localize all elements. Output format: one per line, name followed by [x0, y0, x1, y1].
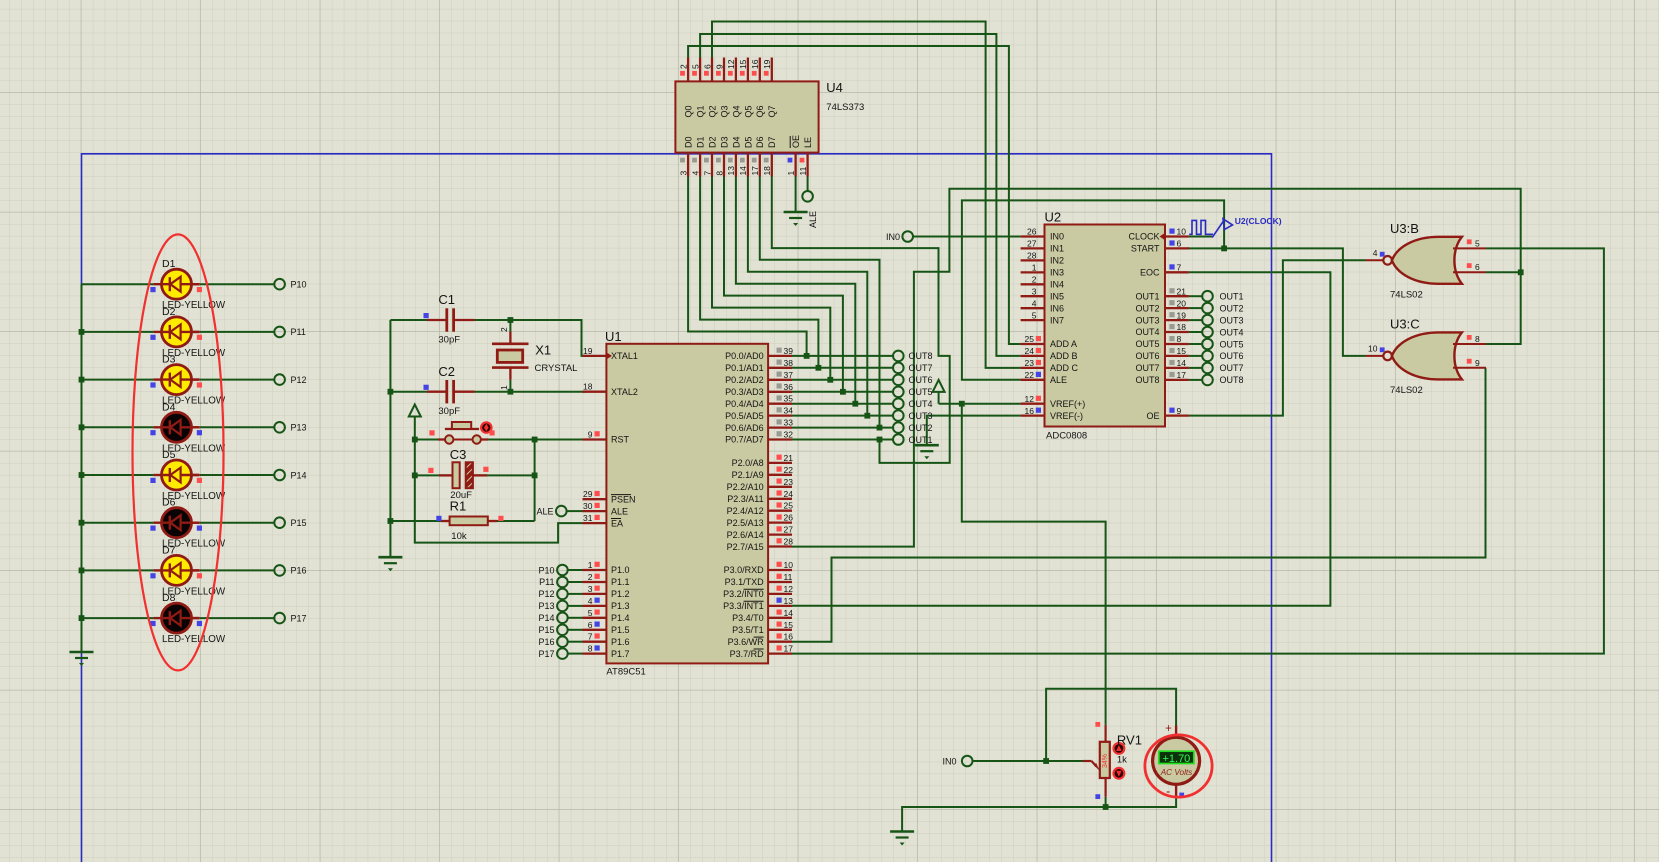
U1 pin 29 (PSEN): [583, 498, 607, 500]
svg-text:P0.6/AD6: P0.6/AD6: [725, 423, 764, 433]
U2 pin 10 (CLOCK): [1165, 235, 1189, 237]
svg-text:Q3: Q3: [719, 105, 729, 117]
svg-text:P17: P17: [291, 613, 307, 623]
svg-text:30pF: 30pF: [438, 335, 460, 346]
wire: ALE terminal to U1: [567, 510, 583, 512]
svg-text:P3.3/INT1: P3.3/INT1: [723, 601, 764, 611]
U1 pin 34 (P0.5/AD5): [768, 414, 792, 416]
svg-text:OUT6: OUT6: [909, 375, 933, 385]
wire: ADC OUT6 to terminal: [1189, 355, 1202, 357]
svg-text:D1: D1: [695, 136, 705, 148]
terminal OUT5 (P0 side): [893, 387, 933, 398]
svg-text:U3:B: U3:B: [1390, 221, 1419, 236]
wire: P3.6/WR to U3:C pin 9: [792, 368, 1486, 642]
svg-text:74LS373: 74LS373: [826, 102, 864, 113]
capacitor C1 30pF: [424, 292, 475, 346]
U2 pin 22 (ALE): [1021, 379, 1045, 381]
U1 body: [606, 344, 768, 664]
clock generator U2(CLOCK): [1189, 216, 1282, 238]
wire: P16 terminal to U1: [568, 641, 583, 643]
svg-text:ADD B: ADD B: [1050, 351, 1078, 361]
svg-text:39: 39: [784, 346, 794, 356]
U1 pin 31 (EA): [583, 522, 607, 524]
svg-text:15: 15: [784, 620, 794, 630]
wire: GND bus left of LEDs: [79, 284, 85, 652]
svg-text:24: 24: [784, 489, 794, 499]
svg-text:4: 4: [588, 596, 593, 606]
svg-text:25: 25: [784, 501, 794, 511]
svg-text:10: 10: [1177, 227, 1187, 237]
svg-text:P17: P17: [538, 649, 554, 659]
svg-text:P0.2/AD2: P0.2/AD2: [725, 375, 764, 385]
svg-text:C1: C1: [438, 292, 455, 307]
U1 pin 24 (P2.3/A11): [768, 498, 792, 500]
U4 pin 5 (Q1) top / pin 4 (D1) bottom: [699, 58, 701, 82]
U1 pin 35 (P0.4/AD4): [768, 403, 792, 405]
svg-text:IN0: IN0: [942, 756, 956, 766]
svg-text:+1.70: +1.70: [1162, 753, 1190, 765]
U4 pin 15 (Q5) top / pin 14 (D5) bottom: [747, 58, 749, 82]
svg-text:U4: U4: [826, 80, 843, 95]
svg-text:OUT2: OUT2: [1135, 303, 1159, 313]
U1 pin 8 (P1.7): [583, 652, 607, 654]
wire: U4 D1 to P0.1: [700, 177, 821, 371]
svg-text:ALE: ALE: [611, 506, 628, 516]
U1 pin 27 (P2.6/A14): [768, 533, 792, 535]
svg-text:OUT3: OUT3: [909, 411, 933, 421]
svg-text:22: 22: [784, 465, 794, 475]
svg-text:16: 16: [784, 632, 794, 642]
led D7 LED-YELLOW: [150, 544, 226, 597]
svg-text:Q1: Q1: [695, 105, 705, 117]
wire: ADC OUT5 to terminal: [1189, 343, 1202, 345]
svg-text:CRYSTAL: CRYSTAL: [535, 363, 578, 374]
terminal ALE (U1): [536, 506, 566, 517]
U1 pin 2 (P1.1): [583, 581, 607, 583]
led D3 LED-YELLOW: [150, 354, 226, 407]
resistor R1 10k: [436, 499, 503, 543]
U2 pin 12 (VREF+): [1021, 403, 1045, 405]
svg-text:IN6: IN6: [1050, 303, 1064, 313]
svg-text:OUT1: OUT1: [909, 435, 933, 445]
selection ellipse around LEDs: [133, 234, 224, 670]
svg-text:D7: D7: [767, 137, 777, 149]
wire: U4 D6 to P0.6: [760, 177, 883, 431]
svg-text:18: 18: [1177, 322, 1187, 332]
svg-text:30: 30: [583, 501, 593, 511]
terminal P12 (U1 side): [538, 589, 567, 600]
svg-text:Q7: Q7: [767, 106, 777, 118]
wire: P11 terminal to U1: [568, 581, 583, 583]
svg-text:OUT2: OUT2: [909, 423, 933, 433]
svg-text:VREF(-): VREF(-): [1050, 411, 1083, 421]
svg-text:9: 9: [714, 64, 724, 69]
svg-text:OUT4: OUT4: [1135, 327, 1159, 337]
U2 pin 1 (IN3): [1021, 271, 1045, 273]
svg-text:16: 16: [1025, 406, 1035, 416]
U1 pin 5 (P1.4): [583, 617, 607, 619]
wire: bottom rail to ground / voltmeter -: [902, 796, 1176, 832]
svg-text:P16: P16: [538, 637, 554, 647]
svg-text:RV1: RV1: [1117, 733, 1142, 748]
U1 pin 15 (P3.5/T1): [768, 629, 792, 631]
svg-text:8: 8: [714, 171, 724, 176]
U2 pin 23 (ADD C): [1021, 367, 1045, 369]
svg-text:P3.2/INT0: P3.2/INT0: [723, 589, 764, 599]
led D4 LED-YELLOW: [150, 401, 226, 454]
svg-text:AC Volts: AC Volts: [1160, 768, 1193, 777]
svg-text:1: 1: [1032, 263, 1037, 273]
wire: C2 / XTAL2 net: [388, 389, 586, 395]
terminal OUT7 (P0 side): [893, 363, 933, 374]
svg-text:IN0: IN0: [886, 232, 900, 242]
svg-text:P2.5/A13: P2.5/A13: [727, 518, 764, 528]
svg-text:P2.7/A15: P2.7/A15: [727, 542, 764, 552]
U4 pin 19 (Q7) top / pin 18 (D7) bottom: [771, 58, 773, 82]
U2 pin 4 (IN6): [1021, 307, 1045, 309]
U2 pin 6 (START): [1165, 247, 1189, 249]
ground (VREF-): [915, 445, 939, 459]
svg-text:OUT8: OUT8: [1220, 375, 1244, 385]
wire: ADC OUT2 to terminal: [1189, 307, 1202, 309]
svg-text:P2.6/A14: P2.6/A14: [727, 530, 764, 540]
svg-text:2: 2: [1032, 275, 1037, 285]
svg-text:Q5: Q5: [743, 106, 753, 118]
svg-text:3: 3: [588, 584, 593, 594]
power +5V arrow (VREF): [933, 380, 945, 404]
svg-text:OUT3: OUT3: [1220, 315, 1244, 325]
U2 pin 24 (ADD B): [1021, 355, 1045, 357]
svg-text:37: 37: [784, 370, 794, 380]
svg-text:P11: P11: [539, 577, 554, 587]
svg-text:RST: RST: [611, 435, 630, 445]
wire: RV1 wiper / IN0 / voltmeter +: [973, 689, 1177, 764]
latch U4 74LS373: [675, 58, 864, 177]
U1 pin 37 (P0.2/AD2): [768, 379, 792, 381]
terminal OUT1 (P0 side): [893, 434, 933, 445]
svg-text:15: 15: [1177, 346, 1187, 356]
svg-text:14: 14: [784, 608, 794, 618]
svg-text:LED-YELLOW: LED-YELLOW: [162, 634, 226, 645]
svg-text:OUT7: OUT7: [1135, 363, 1159, 373]
svg-text:START: START: [1131, 244, 1160, 254]
svg-text:P0.5/AD5: P0.5/AD5: [725, 411, 764, 421]
svg-text:R1: R1: [450, 499, 467, 514]
U4 pin 1 (OE): [794, 153, 796, 177]
potentiometer RV1 1k: [1083, 722, 1142, 799]
svg-text:D2: D2: [162, 306, 176, 318]
svg-text:P0.0/AD0: P0.0/AD0: [725, 351, 764, 361]
svg-text:28: 28: [784, 537, 794, 547]
svg-text:10: 10: [1368, 343, 1378, 353]
svg-text:25: 25: [1025, 334, 1035, 344]
wire: ADC OE to U3:B output: [1189, 260, 1366, 415]
svg-text:15: 15: [738, 59, 748, 69]
wire: LED D1 row: [82, 283, 275, 285]
svg-text:7: 7: [588, 632, 593, 642]
wire: LED D7 row: [82, 569, 275, 571]
U4 pin 16 (Q6) top / pin 17 (D6) bottom: [759, 58, 761, 82]
led D8 LED-YELLOW: [150, 592, 226, 645]
svg-text:13: 13: [784, 596, 794, 606]
wire: U4 Q1 to ADC ADD B: [700, 34, 1021, 356]
svg-text:10k: 10k: [451, 531, 467, 542]
U2 pin 26 (IN0): [1021, 235, 1045, 237]
terminal IN0 (ADC side): [886, 231, 913, 242]
U2 pin 27 (IN1): [1021, 247, 1045, 249]
svg-text:17: 17: [784, 644, 794, 654]
U1 pin 23 (P2.2/A10): [768, 486, 792, 488]
svg-text:OUT8: OUT8: [909, 351, 933, 361]
terminal OUT2 (ADC side): [1202, 303, 1243, 314]
svg-text:PSEN: PSEN: [611, 494, 636, 504]
U1 pin 10 (P3.0/RXD): [768, 569, 792, 571]
wire: P13 terminal to U1: [568, 605, 583, 607]
svg-text:34%: 34%: [1102, 754, 1109, 768]
svg-text:14: 14: [1177, 358, 1187, 368]
svg-text:ADD A: ADD A: [1050, 339, 1077, 349]
capacitor C3 20uF: [428, 447, 488, 501]
svg-text:D0: D0: [684, 136, 694, 148]
svg-text:Q2: Q2: [707, 105, 717, 117]
terminal P16 (U1 side): [538, 636, 567, 647]
svg-text:31: 31: [583, 513, 593, 523]
terminal OUT1 (ADC side): [1202, 291, 1243, 302]
svg-text:29: 29: [583, 489, 593, 499]
wire: RST net: [415, 437, 583, 521]
svg-text:1: 1: [786, 171, 796, 176]
wire: U4 D2 to P0.2: [712, 177, 833, 383]
U2 pin 14 (OUT7): [1165, 367, 1189, 369]
svg-text:P2.0/A8: P2.0/A8: [732, 458, 764, 468]
svg-text:IN3: IN3: [1050, 268, 1064, 278]
terminal P10 (U1 side): [538, 565, 567, 576]
U1 pin 9 (RST): [583, 438, 607, 440]
svg-text:D2: D2: [707, 136, 717, 148]
U2 pin 7 (EOC): [1165, 271, 1189, 273]
svg-text:P14: P14: [538, 613, 554, 623]
svg-text:P0.7/AD7: P0.7/AD7: [725, 435, 764, 445]
power +5V arrow (reset): [409, 405, 421, 440]
svg-text:CLOCK: CLOCK: [1128, 232, 1159, 242]
svg-text:1k: 1k: [1117, 755, 1127, 766]
U1 pin 6 (P1.5): [583, 629, 607, 631]
svg-text:+: +: [1165, 723, 1172, 735]
U1 pin 26 (P2.5/A13): [768, 521, 792, 523]
led D6 LED-YELLOW: [150, 497, 226, 550]
svg-text:12: 12: [1025, 394, 1035, 404]
svg-text:5: 5: [690, 64, 700, 69]
U2 pin 15 (OUT6): [1165, 355, 1189, 357]
mcu U1 AT89C51: [583, 329, 794, 678]
svg-text:18: 18: [583, 382, 593, 392]
terminal OUT2 (P0 side): [893, 422, 933, 433]
svg-text:6: 6: [588, 620, 593, 630]
svg-text:21: 21: [1177, 286, 1187, 296]
terminal P14 (U1 side): [538, 613, 567, 624]
nor-gate U3:C 74LS02: [1366, 316, 1487, 396]
terminal OUT6 (P0 side): [893, 375, 933, 386]
svg-text:IN0: IN0: [1050, 232, 1064, 242]
U2 pin 20 (OUT2): [1165, 307, 1189, 309]
wire: ALE/START net: [962, 200, 1366, 379]
U1 pin 25 (P2.4/A12): [768, 510, 792, 512]
svg-text:P13: P13: [538, 601, 554, 611]
svg-text:11: 11: [784, 572, 793, 582]
svg-text:P0.1/AD1: P0.1/AD1: [725, 363, 764, 373]
svg-text:74LS02: 74LS02: [1390, 385, 1423, 396]
svg-text:P1.1: P1.1: [611, 577, 630, 587]
svg-text:P0.3/AD3: P0.3/AD3: [725, 387, 764, 397]
U1 pin 11 (P3.1/TXD): [768, 581, 792, 583]
svg-text:11: 11: [798, 166, 808, 175]
svg-text:8: 8: [1475, 334, 1480, 344]
svg-text:OUT1: OUT1: [1220, 292, 1244, 302]
svg-text:3: 3: [1032, 286, 1037, 296]
terminal P13 (LED side): [274, 422, 306, 433]
svg-text:D4: D4: [162, 401, 176, 413]
adc U2 ADC0808: [1021, 210, 1189, 442]
wire: ADC OUT4 to terminal: [1189, 331, 1202, 333]
svg-text:IN2: IN2: [1050, 256, 1064, 266]
U1 pin 16 (P3.6/WR): [768, 641, 792, 643]
svg-text:P3.7/RD: P3.7/RD: [730, 649, 765, 659]
wire: EOC to P3.3/INT1: [792, 272, 1330, 606]
U2 body: [1045, 225, 1166, 427]
svg-text:ALE: ALE: [536, 506, 553, 516]
wire: U4 OE to ground: [795, 177, 797, 213]
svg-text:19: 19: [583, 346, 593, 356]
svg-text:23: 23: [1025, 358, 1035, 368]
wire: C3 leads: [415, 474, 535, 476]
svg-text:D6: D6: [755, 136, 765, 148]
svg-text:U2(CLOCK): U2(CLOCK): [1235, 216, 1282, 226]
svg-text:ALE: ALE: [1050, 375, 1067, 385]
svg-text:D5: D5: [743, 137, 753, 149]
svg-text:P10: P10: [291, 280, 307, 290]
U1 pin 19 (XTAL1): [583, 355, 607, 357]
svg-text:XTAL1: XTAL1: [611, 351, 638, 361]
svg-text:P16: P16: [291, 566, 307, 576]
svg-text:P3.6/WR: P3.6/WR: [728, 637, 765, 647]
svg-text:74LS02: 74LS02: [1390, 289, 1423, 300]
wire: crystal X1 vertical stubs: [509, 320, 511, 392]
svg-text:30pF: 30pF: [438, 406, 460, 417]
wire: U4 D3 to P0.3: [724, 177, 846, 395]
svg-text:C2: C2: [438, 364, 455, 379]
svg-text:IN5: IN5: [1050, 291, 1064, 301]
U1 pin 36 (P0.3/AD3): [768, 391, 792, 393]
terminal OUT8 (ADC side): [1202, 375, 1243, 386]
terminal P13 (U1 side): [538, 601, 567, 612]
svg-text:P2.3/A11: P2.3/A11: [727, 494, 763, 504]
svg-text:LE: LE: [803, 137, 813, 148]
terminal OUT3 (P0 side): [893, 410, 933, 421]
wire: P0.0 to OUT8 terminal: [792, 355, 893, 357]
wire: ADC OUT8 to terminal: [1189, 379, 1202, 381]
svg-text:P2.1/A9: P2.1/A9: [732, 470, 764, 480]
svg-text:23: 23: [784, 477, 794, 487]
U2 pin 19 (OUT3): [1165, 319, 1189, 321]
U2 pin 25 (ADD A): [1021, 343, 1045, 345]
svg-text:7: 7: [1177, 263, 1182, 273]
U4 pin 9 (Q3) top / pin 8 (D3) bottom: [723, 58, 725, 82]
svg-text:35: 35: [784, 394, 794, 404]
U1 pin 39 (P0.0/AD0): [768, 355, 792, 357]
push button (reset): [429, 422, 494, 444]
svg-text:32: 32: [784, 430, 794, 440]
svg-text:OE: OE: [791, 135, 801, 148]
wire: R1 leads: [390, 520, 534, 522]
wire: U4 D0 to P0.0: [688, 177, 809, 359]
U1 pin 12 (P3.2/INT0): [768, 593, 792, 595]
svg-text:ALE: ALE: [808, 211, 818, 228]
svg-text:P1.3: P1.3: [611, 601, 630, 611]
wire: P0.7 to OUT1 terminal: [792, 439, 893, 441]
svg-text:14: 14: [738, 166, 748, 176]
svg-text:AT89C51: AT89C51: [606, 667, 645, 678]
svg-text:EOC: EOC: [1140, 268, 1160, 278]
U1 pin 22 (P2.1/A9): [768, 474, 792, 476]
wire: P0.1 to OUT7 terminal: [792, 367, 893, 369]
U4 body: [675, 81, 818, 152]
svg-text:2: 2: [499, 327, 509, 332]
svg-text:18: 18: [762, 166, 772, 176]
svg-text:5: 5: [1032, 310, 1037, 320]
svg-text:OUT7: OUT7: [1220, 363, 1244, 373]
wire: VCC column to C3/EA: [412, 437, 583, 543]
svg-text:C3: C3: [450, 447, 467, 462]
svg-text:OE: OE: [1146, 411, 1159, 421]
terminal P11 (U1 side): [539, 577, 568, 588]
wire: P0.5 to OUT3 terminal: [792, 415, 893, 417]
svg-text:28: 28: [1027, 251, 1037, 261]
U4 pin 6 (Q2) top / pin 7 (D2) bottom: [711, 58, 713, 82]
svg-text:OUT2: OUT2: [1220, 303, 1244, 313]
svg-text:26: 26: [1027, 227, 1037, 237]
wire: VREF(+) / RV1 net: [939, 401, 1106, 725]
svg-text:22: 22: [1025, 370, 1035, 380]
U2 pin 16 (VREF-): [1021, 414, 1045, 416]
wire: LED D3 row: [82, 379, 275, 381]
svg-text:P14: P14: [291, 470, 307, 480]
U2 pin 21 (OUT1): [1165, 295, 1189, 297]
svg-text:IN7: IN7: [1050, 315, 1064, 325]
U1 pin 38 (P0.1/AD1): [768, 367, 792, 369]
svg-text:D3: D3: [162, 354, 176, 366]
wire: GND bus (reset group): [388, 320, 394, 557]
svg-text:26: 26: [784, 513, 794, 523]
svg-text:6: 6: [1475, 262, 1480, 272]
wire: ADC CLOCK stub: [1189, 236, 1212, 238]
wire: U4 Q2 to ADC ADD C: [712, 22, 1021, 368]
wire: P12 terminal to U1: [568, 593, 583, 595]
terminal OUT4 (ADC side): [1202, 327, 1243, 338]
svg-text:7: 7: [702, 171, 712, 176]
U1 pin 21 (P2.0/A8): [768, 462, 792, 464]
svg-text:17: 17: [1177, 370, 1187, 380]
U2 pin 17 (OUT8): [1165, 379, 1189, 381]
U1 pin 7 (P1.6): [583, 641, 607, 643]
ground (U4 OE): [784, 212, 808, 226]
U1 pin 4 (P1.3): [583, 605, 607, 607]
svg-text:10: 10: [784, 560, 794, 570]
svg-text:OUT7: OUT7: [909, 363, 933, 373]
svg-text:24: 24: [1025, 346, 1035, 356]
svg-text:12: 12: [784, 584, 794, 594]
svg-text:VREF(+): VREF(+): [1050, 399, 1085, 409]
svg-text:13: 13: [726, 166, 736, 176]
